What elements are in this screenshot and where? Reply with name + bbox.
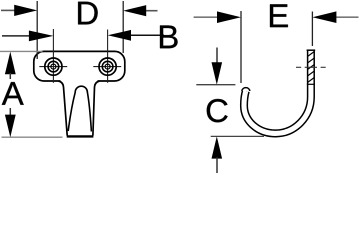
dimension E right arrow: [336, 16, 359, 18]
plate bar top cap: [307, 49, 316, 51]
right hole crosshair vertical / B right extension line: [107, 30, 109, 83]
dimension C bottom extension line: [211, 135, 264, 137]
prong inner dome (hook tip seen from front): [68, 86, 91, 131]
dimension E left extension line: [240, 11, 242, 83]
dimension B right arrow: [131, 34, 164, 36]
plate bar hatching: [308, 52, 315, 83]
screw centerline (dash-dot): [296, 66, 326, 68]
plate bar bottom tick: [307, 83, 315, 85]
prong bottom edge: [67, 135, 94, 137]
right hole rings: [99, 58, 116, 75]
dimension A top extension line: [0, 50, 43, 52]
hook tip round cap: [242, 88, 250, 91]
dimension C top extension line: [196, 84, 235, 86]
neck gap patch: [61, 79, 98, 83]
dimension E right extension line: [311, 12, 313, 47]
left hole rings: [45, 58, 62, 75]
dimension A down arrow: [9, 108, 11, 115]
dimension C down arrow: [216, 48, 218, 63]
right hole crosshair horizontal: [93, 66, 121, 68]
front view: mounting plate: [34, 51, 125, 81]
left hole crosshair horizontal: [39, 66, 67, 68]
left hole crosshair vertical / B left extension line: [52, 29, 54, 83]
dimension D right arrow: [146, 10, 158, 12]
label C: [207, 99, 228, 122]
dimension A bottom extension line: [2, 136, 63, 138]
dimension D left arrow: [1, 9, 15, 11]
side view: hook strap: [244, 50, 311, 133]
label E: [270, 4, 288, 27]
dimension C up arrow: [212, 136, 223, 158]
label B: [160, 25, 178, 48]
label D: [78, 2, 98, 25]
label A: [2, 82, 24, 105]
dimension D right extension line: [122, 1, 124, 53]
dimension E left arrow: [194, 16, 217, 18]
dimension A up arrow: [5, 52, 16, 75]
dimension D left extension line: [36, 1, 38, 59]
dimension B left arrow: [2, 35, 30, 37]
prong outline: [59, 81, 100, 136]
